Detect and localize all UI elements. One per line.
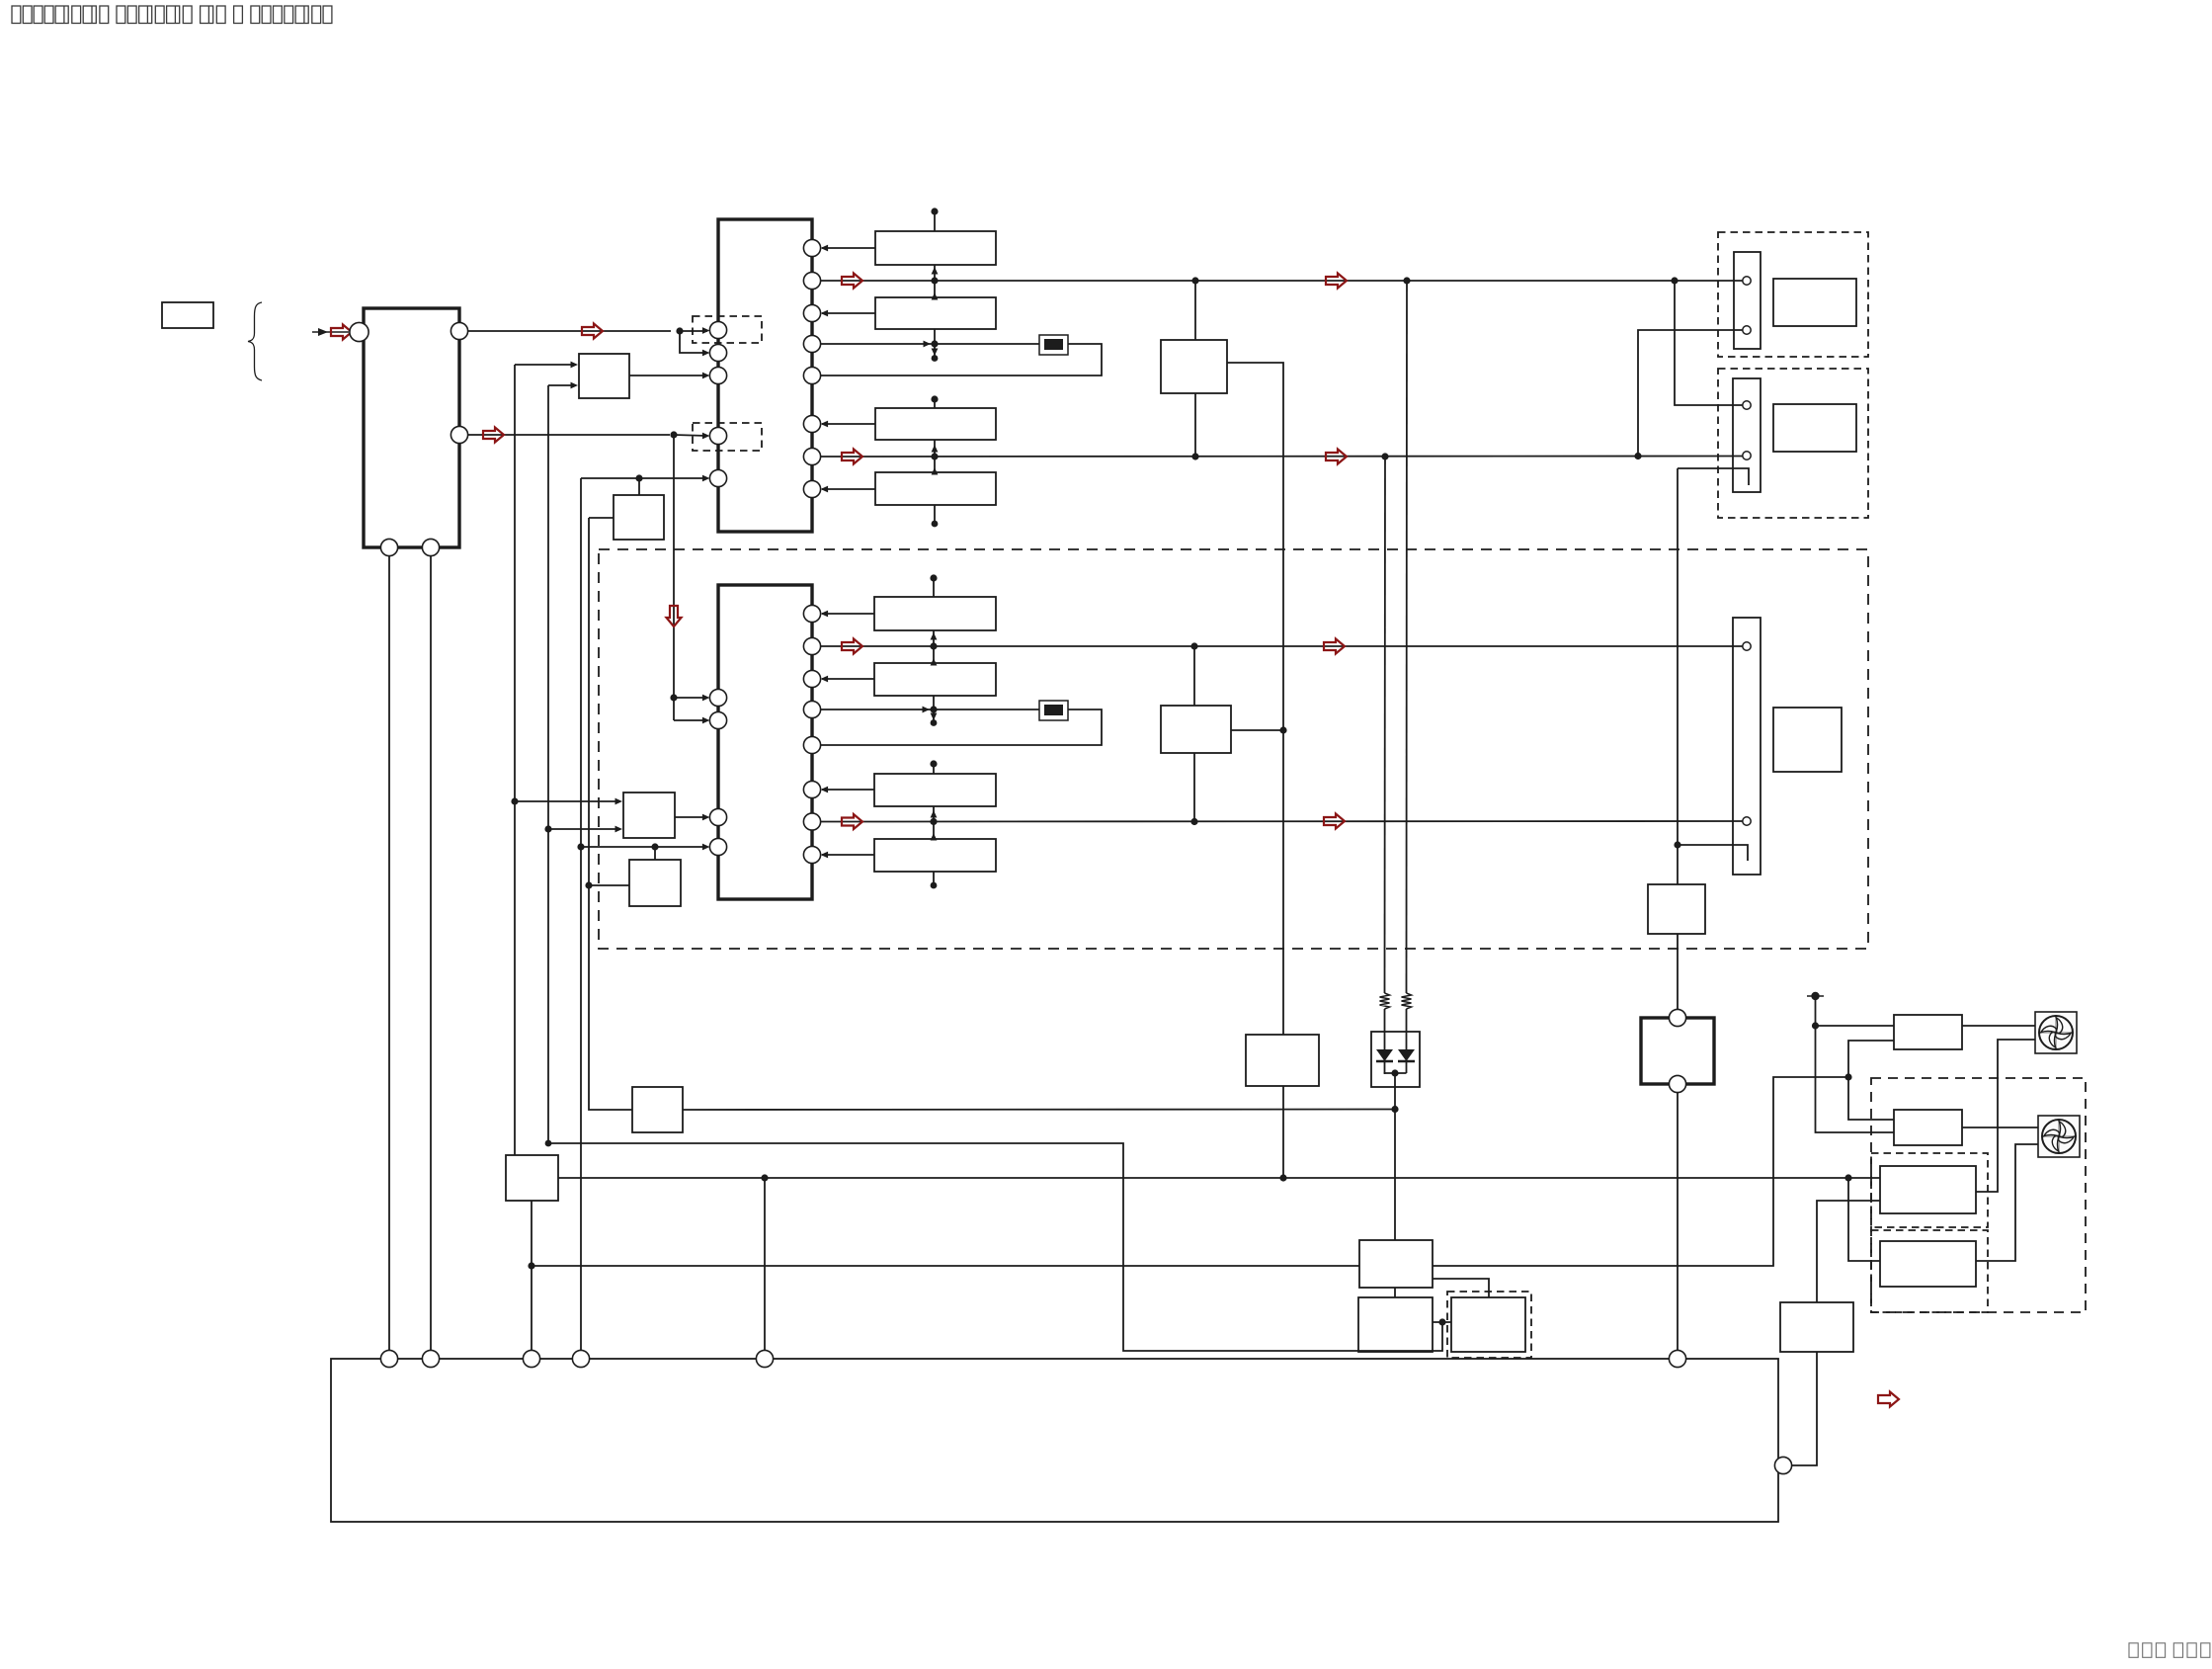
junction at (1460,1338): [1438, 1318, 1445, 1325]
junction R2/stub: [931, 277, 938, 284]
wire B203 to U2 R6: [822, 789, 874, 791]
wire junction down to U1 L2: [680, 331, 707, 353]
wire U2R2 down to B205: [1193, 646, 1195, 706]
sub block A6: [506, 1155, 558, 1201]
arrowhead into U1 pin L4: [702, 433, 710, 440]
wire B105 down to R7 line: [1194, 393, 1196, 457]
wire R111 to diode box: [1406, 1009, 1408, 1049]
CN-R pin 1: [1743, 277, 1751, 285]
wire D101a join stub: [1384, 1062, 1386, 1073]
U2 right pin R2: [803, 637, 820, 654]
main board top pin 3: [523, 1350, 539, 1367]
U2 left pin L2: [709, 711, 726, 728]
U1 right pin R6: [803, 415, 820, 432]
junction at (647,484): [635, 474, 642, 481]
stub B203 bottom to R7 line: [933, 806, 935, 822]
wire junction down to A4 top: [654, 847, 656, 860]
arrowhead into U1 R8: [821, 486, 829, 493]
CN-CH2 pin 2: [1743, 817, 1751, 825]
header glyph box 20: [274, 6, 283, 24]
wire input to U1 pin L1: [468, 330, 671, 332]
arrow down on stub: [932, 349, 939, 357]
wire B205 right to bus x1299: [1231, 729, 1283, 731]
arrowhead into U2 pin L3: [702, 814, 710, 821]
U1 left pin L4: [709, 427, 726, 444]
wire x1695 R2 to CN-L pin1: [1675, 281, 1743, 405]
header glyph box 3: [34, 6, 42, 24]
red arrow on R7 line mid: [1326, 450, 1347, 464]
relay K2 top pin: [1669, 1009, 1685, 1026]
wire node B down to R302: [1848, 1077, 1894, 1120]
U2 right pin R5: [803, 736, 820, 753]
input block pin bottom-1: [380, 539, 397, 555]
dashed pin group U1 L1: [693, 316, 762, 343]
footer glyph box 6: [2201, 1643, 2210, 1658]
header glyph box 1: [12, 6, 21, 24]
U1 right pin R4: [803, 335, 820, 352]
arrowhead into U1 R1: [821, 245, 829, 252]
dashed pin group U1 L4: [693, 423, 762, 451]
wire bus x555: [547, 385, 549, 1143]
wire bus x588: [580, 478, 582, 1350]
arrow up into B203: [931, 810, 938, 818]
red arrow lone bottom right: [1878, 1392, 1899, 1407]
dashed enclosure B403: [1447, 1292, 1531, 1358]
main board top pin 4: [572, 1350, 589, 1367]
wire CN-CH2 return stub: [1678, 845, 1748, 861]
wire power to R301: [1816, 1025, 1895, 1027]
footer glyph box 2: [2143, 1643, 2152, 1658]
wire x1424 down: [1406, 281, 1409, 993]
legend brace: [248, 302, 262, 380]
header glyph box 24: [323, 6, 332, 24]
detector block A2: [614, 495, 664, 540]
CN-L pin 2: [1743, 452, 1751, 459]
arrowhead on U2 R4 line: [923, 707, 931, 713]
stub R4 line down: [934, 344, 936, 356]
stub into B203 top: [933, 764, 935, 774]
arrowhead on R4 line: [924, 341, 932, 348]
block B101: [875, 231, 996, 265]
arrow up into B101: [932, 267, 939, 275]
wire U1 R7 line: [821, 456, 1743, 459]
wire diode join down: [1394, 1073, 1396, 1240]
red arrow on R2 line mid: [1326, 274, 1347, 289]
red arrow on U2 R2 line mid: [1324, 639, 1345, 654]
wire A2 input: [589, 517, 614, 519]
U1 right pin R8: [803, 480, 820, 497]
wire K2 down to main board: [1677, 1093, 1679, 1351]
footer glyph box 4: [2173, 1643, 2182, 1658]
wire to U2 pin L1: [674, 697, 707, 699]
main board block PSU: [331, 1359, 1778, 1522]
red down arrow on bus 682: [667, 606, 682, 626]
arrowhead A1 in2: [571, 382, 579, 389]
header glyph box 5: [55, 6, 68, 24]
junction R7/stub: [931, 453, 938, 459]
stub B103 bottom to R7 line: [934, 440, 936, 457]
wire fan M1 return: [1976, 1040, 2035, 1192]
junction B at (1871,1090): [1844, 1073, 1851, 1080]
red arrow on R2 line near IC: [842, 274, 862, 289]
wire R302 to fan M2: [1962, 1127, 2038, 1128]
fusible resistor FR101: [1039, 335, 1068, 355]
CN-R pin 2: [1743, 326, 1751, 334]
wire A2 top to node 484: [638, 478, 640, 495]
U2 right pin R6: [803, 781, 820, 797]
arrowhead into U1 pin L2: [702, 350, 710, 357]
junction diode join: [1391, 1069, 1398, 1076]
diode D101a: [1376, 1049, 1393, 1061]
wire A5 output to diode node: [683, 1109, 1395, 1112]
arrowhead A3 in2: [615, 826, 623, 833]
input source wire: [312, 331, 349, 333]
stub B102 bottom to R4 line: [934, 329, 936, 344]
wire bus 682 down: [673, 435, 675, 720]
stub into B103 top: [934, 399, 936, 408]
wire node 588-484 to U1 L5: [581, 477, 707, 479]
wire A1 input 2: [548, 384, 576, 386]
resistor R111: [1402, 993, 1412, 1009]
wire A1 output to U1 L3: [629, 375, 707, 376]
wire A1 input 1: [515, 364, 576, 366]
arrow up to R2 line: [931, 658, 938, 666]
junction U2R7/B205 branch: [1190, 818, 1197, 825]
wire fan M2 return: [1976, 1144, 2038, 1261]
wire x1402 down: [1384, 457, 1387, 993]
header glyph box 11: [139, 6, 152, 24]
wire B205 down to U2R7 line: [1193, 753, 1195, 822]
junction x1299/B205 branch: [1279, 726, 1286, 733]
arrowhead into U1 R3: [821, 310, 829, 317]
wire R301 lower to node B: [1848, 1041, 1894, 1077]
resistor R110: [1380, 993, 1390, 1009]
junction power/fan1 res: [1812, 1022, 1819, 1029]
wire U2 R7 line: [821, 820, 1743, 823]
wire junction to U1 L1: [680, 330, 707, 332]
power dot above B103: [931, 395, 938, 402]
junction R2/B105 branch: [1191, 277, 1198, 284]
junction at (1412,1122): [1391, 1106, 1398, 1113]
junction at (588,857): [577, 843, 584, 850]
U1 left pin L2: [709, 344, 726, 361]
junction U2R4/stub: [930, 706, 937, 712]
arrowhead into U1 R6: [821, 421, 829, 428]
wire A3 input 1: [515, 800, 620, 802]
header glyph box 23: [312, 6, 321, 24]
junction at (1299,1192): [1279, 1174, 1286, 1181]
block B202: [874, 663, 996, 696]
header glyph box 4: [44, 6, 53, 24]
wire D101b join stub: [1406, 1062, 1408, 1073]
arrow up to R7 line: [932, 467, 939, 475]
wire node1460 down-left bus: [548, 1143, 1442, 1351]
U1 right pin R5: [803, 367, 820, 383]
U1 right pin R7: [803, 448, 820, 464]
wire FR201 loop to U2 R5: [821, 709, 1102, 745]
wire B402 right stub: [1433, 1321, 1451, 1323]
speaker block SP-R box: [1773, 279, 1856, 326]
junction at (682,440): [670, 431, 677, 438]
block B102: [875, 297, 996, 329]
junction R2/x1695 branch: [1671, 277, 1678, 284]
arrowhead into U2 pin L1: [702, 695, 710, 702]
stub B202 bottom to R4 line: [933, 696, 935, 709]
stub line to B102 top: [934, 281, 936, 297]
wire B105 right to bus x1299: [1227, 363, 1283, 1035]
dashed enclosure CH2 module: [599, 549, 1868, 949]
header glyph box 18: [251, 6, 260, 24]
block B205: [1161, 706, 1231, 753]
power terminal tick: [1807, 995, 1824, 997]
wire B103 to U1 R6: [822, 423, 875, 425]
wire A3 out to U2 L3: [675, 816, 707, 818]
junction R7/x1402 branch: [1381, 453, 1388, 459]
block B301: [1648, 884, 1705, 934]
arrowhead into U1 pin L3: [702, 373, 710, 379]
main board top pin 2: [422, 1350, 439, 1367]
relay K2 bottom pin: [1669, 1075, 1685, 1092]
speaker block SP-L box: [1773, 404, 1856, 452]
junction R7/B105 branch: [1191, 453, 1198, 459]
wire B201 to U2 R1: [822, 613, 874, 615]
wire A3 input 2: [548, 828, 620, 830]
stub R7 line to B104 top: [934, 457, 936, 472]
fusible resistor FR201: [1039, 701, 1068, 720]
relay block K2: [1641, 1018, 1714, 1084]
terminal dot below B104: [932, 521, 939, 528]
red arrow on R7 line near IC: [842, 450, 862, 464]
wire U1 R4 line: [821, 343, 1039, 345]
arrowhead into U2 R1: [821, 611, 829, 618]
power dot above B201: [930, 574, 937, 581]
junction R4/stub: [931, 340, 938, 347]
arrow up into B201: [931, 632, 938, 640]
block B204: [874, 839, 996, 872]
IC U1: [718, 219, 812, 532]
main board top pin 5: [756, 1350, 773, 1367]
wire junction to U1 L4: [674, 435, 707, 436]
mute logic block A3: [623, 793, 675, 838]
stub line to B202 top: [933, 646, 935, 663]
wire B204 to U2 R8: [822, 854, 874, 856]
arrow up to R7 line: [931, 833, 938, 841]
stub B201 bottom to line: [933, 630, 935, 646]
wire node A down to B305: [1848, 1178, 1880, 1261]
diode D101b: [1398, 1049, 1415, 1061]
fan drive block B305: [1880, 1241, 1976, 1287]
fan drive block B304: [1880, 1166, 1976, 1213]
red arrow on U2 R7 line mid: [1324, 814, 1345, 829]
protect block B401: [1359, 1240, 1433, 1288]
U2 right pin R1: [803, 605, 820, 622]
wire to U2 pin L2: [674, 719, 707, 721]
terminal dot below R4 line: [931, 719, 938, 726]
wire B101 to U1 R1: [822, 247, 875, 249]
wire x774 down to board: [764, 1178, 766, 1350]
wire D101a to join: [1385, 1073, 1407, 1074]
stub B101 bottom to line: [934, 265, 936, 281]
wire K1 down to node: [1282, 1086, 1284, 1178]
block B105: [1161, 340, 1227, 393]
red arrow on U2 R2 line near IC: [842, 639, 862, 654]
stub B204 bottom down: [933, 872, 935, 883]
main board top pin 6: [1669, 1350, 1685, 1367]
arrow up into B103: [932, 445, 939, 453]
U2 right pin R8: [803, 846, 820, 863]
thermal block B306: [1780, 1302, 1853, 1352]
junction at (774,1192): [761, 1174, 768, 1181]
diode pack D101 box: [1371, 1032, 1420, 1087]
U1 left pin L1: [709, 321, 726, 338]
wire x1658 R7 to CN-R pin2: [1638, 330, 1743, 457]
mute logic block A1: [579, 354, 629, 398]
wire bus x1698 upper: [1677, 468, 1679, 884]
input block CN101: [364, 308, 459, 547]
stub into B201 top: [933, 578, 935, 597]
arrow down on stub: [931, 713, 938, 721]
wire R110 to diode box: [1384, 1009, 1386, 1049]
wire B306 down to board pin: [1792, 1352, 1817, 1465]
red signal arrow into input block: [331, 325, 352, 340]
wire input block pin B2 down: [430, 556, 432, 1351]
header glyph box 6: [72, 6, 81, 24]
dashed speaker module SP-L: [1718, 369, 1868, 518]
junction U2R7/stub: [930, 818, 937, 825]
sub block A5: [632, 1087, 683, 1132]
wire B102 to U1 R3: [822, 312, 875, 314]
header glyph box 21: [285, 6, 293, 24]
U2 right pin R4: [803, 701, 820, 717]
wire B401 right to B403 top: [1433, 1279, 1489, 1297]
arrowhead into U2 R3: [821, 676, 829, 683]
junction R2/x1424 branch: [1403, 277, 1410, 284]
header glyph box 14: [183, 6, 192, 24]
connector CN-L: [1733, 378, 1761, 492]
input source arrowhead: [318, 328, 328, 336]
power terminal dot: [1811, 992, 1819, 1000]
wire R301 to fan M1: [1962, 1025, 2035, 1027]
U1 right pin R1: [803, 239, 820, 256]
terminal dot below B204: [931, 882, 938, 889]
arrowhead into U1 pin L1: [702, 327, 710, 334]
input block pin right-mid: [451, 426, 467, 443]
red arrow on U2 R7 line near IC: [842, 814, 862, 829]
fan resistor R302: [1894, 1110, 1962, 1145]
wire A6 bottom down: [531, 1201, 533, 1350]
arrowhead into U1 pin L5: [702, 475, 710, 482]
U1 left pin L3: [709, 367, 726, 383]
junction U2R2/B205 branch: [1190, 642, 1197, 649]
footer glyph box 1: [2129, 1643, 2138, 1658]
CN-CH2 pin 1: [1743, 642, 1751, 650]
protect block B402: [1358, 1297, 1433, 1352]
stub R4 line down: [933, 709, 935, 720]
U2 right pin R7: [803, 813, 820, 830]
wire B401 to B402: [1394, 1288, 1396, 1297]
header glyph box 17: [234, 6, 243, 24]
block B103: [875, 408, 996, 440]
wire B202 to U2 R3: [822, 678, 874, 680]
wire U2 R2 line: [821, 645, 1743, 647]
header glyph box 12: [155, 6, 164, 24]
wire node588 to U2 L4: [581, 846, 707, 848]
tall connector CN-CH2: [1733, 618, 1761, 875]
U2 left pin L4: [709, 838, 726, 855]
U1 right pin R2: [803, 272, 820, 289]
U2 right pin R3: [803, 670, 820, 687]
header glyph box 7: [83, 6, 96, 24]
junction at (663,857): [651, 843, 658, 850]
protect block B403: [1451, 1297, 1525, 1352]
junction at (555,839): [544, 825, 551, 832]
junction x1698 stub: [1674, 841, 1680, 848]
junction R7/x1658 branch: [1634, 453, 1641, 459]
wire 1281 left segment: [532, 1265, 1359, 1267]
detector block A4: [629, 860, 681, 906]
U2 left pin L3: [709, 808, 726, 825]
wire power rail down: [1816, 996, 1895, 1132]
connector CN-R: [1734, 252, 1761, 349]
wire node596 to A4 left: [589, 884, 629, 886]
dashed enclosure fan control: [1871, 1078, 2086, 1312]
wire bus x596: [589, 518, 632, 1110]
stub B104 bottom down: [934, 505, 936, 522]
junction U2R2/stub: [930, 642, 937, 649]
arrowhead into U2 R6: [821, 787, 829, 793]
arrow up to R2 line: [932, 292, 939, 300]
junction A at (1871,1192): [1844, 1174, 1851, 1181]
wire U2 R4 line: [821, 709, 1039, 710]
arrowhead A1 in1: [571, 362, 579, 369]
speaker block CH2 box: [1773, 708, 1842, 772]
junction at (521,811): [511, 797, 518, 804]
power dot above B203: [930, 760, 937, 767]
junction/corner at (555,1157): [545, 1140, 552, 1147]
dashed enclosure fan drive 1: [1871, 1153, 1988, 1227]
fan M2: [2038, 1116, 2080, 1157]
wire R2 line down to B105: [1194, 281, 1196, 340]
wire FR101 loop to U1 R5: [821, 344, 1102, 376]
CN-L pin 1: [1743, 401, 1751, 409]
footer glyph box 3: [2156, 1643, 2165, 1658]
stub R7 line to B204 top: [933, 822, 935, 840]
stub into B101 top: [934, 211, 936, 231]
wire CN-L return stub: [1678, 468, 1749, 485]
block B201: [874, 597, 996, 630]
fan resistor R301: [1894, 1015, 1962, 1049]
legend box: [162, 302, 213, 328]
junction at (682,706): [670, 694, 677, 701]
block B104: [875, 472, 996, 505]
header glyph box 22: [295, 6, 308, 24]
main board right pin: [1774, 1457, 1791, 1473]
arrowhead into U2 pin L4: [702, 844, 710, 851]
wire 1281 right segment: [1433, 1077, 1848, 1266]
arrowhead A3 in1: [615, 798, 623, 805]
junction at (688,335): [676, 327, 683, 334]
wire A6 right long line: [558, 1177, 1880, 1179]
IC U2: [718, 585, 812, 899]
header glyph box 2: [23, 6, 32, 24]
header glyph box 9: [117, 6, 125, 24]
junction at (538,1281): [528, 1262, 534, 1269]
header glyph box 19: [262, 6, 271, 24]
arrowhead into U2 pin L2: [702, 717, 710, 724]
terminal dot below R4 line: [932, 355, 939, 362]
red arrow on wire to U1 L4: [483, 428, 504, 443]
junction at (596,896): [585, 881, 592, 888]
